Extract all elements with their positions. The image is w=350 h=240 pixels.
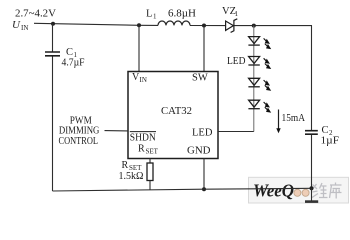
svg-text:2.7~4.2V: 2.7~4.2V: [15, 9, 56, 20]
watermark panel: [249, 177, 349, 203]
inductor L1: [158, 21, 190, 25]
wire: left vertical (C1 branch): [52, 24, 54, 191]
wire: LED chain vertical: [253, 26, 255, 132]
wire: right vertical (C2 branch): [311, 26, 313, 189]
LED D4 light arrows: [264, 102, 271, 112]
node: input junction: [51, 22, 55, 26]
svg-text:SW: SW: [192, 73, 208, 84]
LED D3: [248, 78, 259, 87]
svg-text:GND: GND: [187, 146, 211, 157]
svg-text:R: R: [122, 160, 129, 171]
watermark o circles: [294, 189, 301, 196]
wire: top rail after inductor: [190, 25, 226, 27]
capacitor C2: [305, 131, 318, 135]
svg-text:CONTROL: CONTROL: [59, 136, 99, 147]
svg-text:1µF: 1µF: [321, 136, 340, 147]
svg-text:4.7µF: 4.7µF: [62, 58, 85, 69]
svg-text:SET: SET: [146, 148, 159, 156]
current arrow 15mA: [278, 110, 280, 130]
svg-text:1: 1: [153, 13, 157, 21]
svg-text:LED: LED: [192, 128, 213, 139]
ground: [305, 200, 318, 203]
zener diode VZ1: [226, 19, 238, 33]
svg-text:WeeQ: WeeQ: [253, 180, 294, 200]
node: LED chain top junction: [252, 24, 256, 28]
LED D1: [248, 37, 259, 46]
svg-text:C: C: [66, 47, 73, 58]
LED D4: [248, 100, 259, 109]
LED D3 light arrows: [264, 80, 271, 90]
watermark chinese 维: [312, 183, 328, 198]
wire: top rail after zener to right corner: [234, 25, 312, 27]
svg-text:R: R: [138, 144, 145, 155]
wire: GND pin drop: [203, 158, 205, 189]
svg-text:6.8µH: 6.8µH: [168, 9, 196, 20]
watermark chinese 库: [330, 183, 342, 199]
wire: top rail: [34, 23, 158, 25]
wire: SW pin drop: [203, 26, 205, 72]
wire: bottom rail: [53, 188, 312, 191]
node: GND bottom junction: [202, 187, 206, 191]
LED D1 light arrows: [264, 38, 271, 48]
svg-text:15mA: 15mA: [282, 113, 306, 124]
node: SW junction: [202, 24, 206, 28]
svg-text:C: C: [322, 125, 329, 136]
capacitor C1: [45, 52, 60, 56]
svg-text:1.5kΩ: 1.5kΩ: [119, 171, 144, 182]
LED D2 light arrows: [264, 58, 271, 68]
resistor RSET: [147, 163, 153, 181]
svg-text:U: U: [12, 19, 21, 31]
svg-text:CAT32: CAT32: [161, 105, 192, 117]
svg-text:SHDN: SHDN: [130, 133, 156, 144]
wire: LED pin horizontal: [218, 131, 254, 133]
wire: RSET pin drop: [149, 158, 151, 163]
wire: VIN pin drop: [138, 25, 140, 71]
node: C2 bottom junction: [310, 186, 314, 190]
svg-text:IN: IN: [21, 24, 28, 32]
op IC U1 CAT32 box: [128, 72, 218, 159]
svg-text:LED: LED: [227, 56, 246, 67]
svg-text:IN: IN: [140, 76, 147, 84]
wire: resistor bottom lead: [149, 181, 151, 190]
svg-text:1: 1: [235, 10, 239, 18]
wire: SHDN pin: [105, 130, 129, 132]
svg-text:L: L: [146, 9, 152, 20]
wire: ground stub: [311, 188, 313, 201]
LED D2: [248, 57, 259, 66]
node: VIN junction: [137, 23, 141, 27]
